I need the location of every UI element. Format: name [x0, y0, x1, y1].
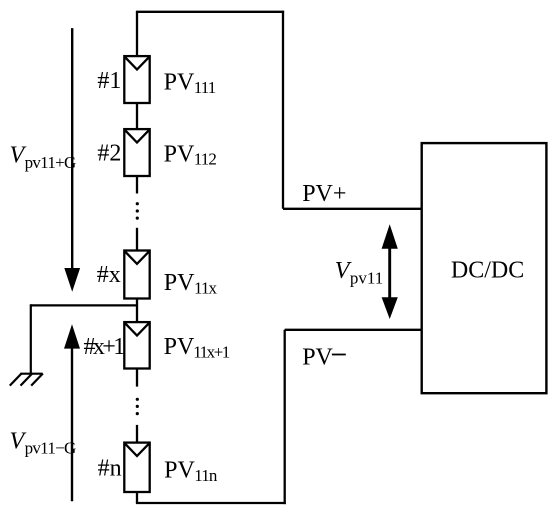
label PV- minus dash: [332, 354, 346, 356]
svg-text:Vpv11: Vpv11: [335, 258, 383, 288]
PV module #2 body: [124, 129, 149, 176]
double-headed arrow Vpv11 shaft: [388, 247, 391, 299]
wire above module #x: [136, 228, 138, 251]
svg-text:PV111: PV111: [164, 70, 216, 97]
ellipsis dots between #2 and #x: [136, 202, 139, 220]
arrow Vpv11+G (downward) shaft: [71, 28, 73, 269]
ground symbol: [10, 374, 43, 386]
wire PV- horizontal to DC/DC: [285, 329, 422, 331]
svg-text:PV112: PV112: [164, 141, 217, 168]
wire right riser from bottom rail to PV-: [284, 330, 286, 504]
svg-text:#x+1: #x+1: [84, 334, 125, 360]
svg-text:PV11x+1: PV11x+1: [164, 334, 230, 362]
PV module #x body: [124, 251, 149, 299]
wire from module #1 top to top rail: [136, 12, 138, 56]
wire top rail horizontal: [136, 11, 284, 13]
svg-text:PV+: PV+: [302, 181, 346, 207]
wire right drop from top rail to PV+: [282, 11, 284, 209]
PV module #1 body: [124, 56, 149, 103]
wire between module #1 and module #2: [136, 103, 138, 129]
arrow Vpv11+G head: [64, 268, 80, 292]
PV module #n body: [124, 443, 149, 492]
wire below module #x+1: [136, 369, 138, 387]
DC/DC converter box: [422, 143, 547, 393]
svg-text:PV11x: PV11x: [164, 270, 218, 298]
svg-text:#x: #x: [97, 262, 121, 288]
svg-text:PV11n: PV11n: [164, 458, 218, 486]
wire below module #2: [136, 176, 138, 194]
wire between module #x and module #x+1, junction node: [136, 299, 138, 323]
svg-text:PV: PV: [302, 344, 333, 370]
ellipsis dots between #x+1 and #n: [136, 398, 139, 416]
svg-text:DC/DC: DC/DC: [451, 258, 524, 284]
svg-text:Vpv11+G: Vpv11+G: [10, 142, 77, 172]
PV module #x+1 body: [124, 322, 149, 368]
wire from module #n bottom to bottom rail: [136, 492, 138, 503]
double arrow bottom head: [382, 297, 398, 319]
wire above module #n: [136, 425, 138, 443]
wire PV+ horizontal to DC/DC: [283, 208, 422, 210]
wire bottom rail horizontal: [136, 502, 286, 504]
svg-text:#n: #n: [98, 456, 122, 482]
wire ground tee horizontal: [31, 304, 138, 306]
arrow Vpv11-G (upward) shaft: [71, 348, 73, 501]
svg-text:Vpv11−G: Vpv11−G: [10, 428, 77, 457]
wire ground drop vertical: [30, 304, 32, 373]
svg-text:#2: #2: [97, 141, 121, 167]
double arrow top head: [382, 224, 398, 249]
arrow Vpv11-G head: [64, 324, 80, 348]
svg-text:#1: #1: [97, 68, 121, 94]
